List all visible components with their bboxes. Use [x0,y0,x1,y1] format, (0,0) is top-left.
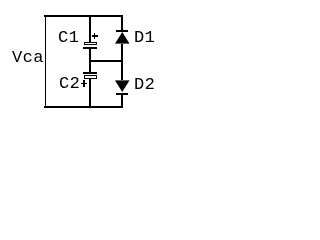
wire top rail [44,15,123,17]
capacitor C2 positive plate (outlined) [84,75,97,79]
capacitor C1 plus sign [92,35,98,37]
wire bottom rail [44,106,123,108]
diode D1 cathode bar [116,30,128,32]
label Vca [12,50,44,67]
wire diode branch upper segment [121,15,123,30]
label D2 [134,77,155,94]
capacitor C1 positive plate (outlined) [84,42,97,46]
wire diode branch middle segment [121,44,123,80]
wire capacitor branch lower segment [89,79,91,108]
wire capacitor branch middle segment [89,49,91,72]
label C1 [58,30,79,47]
wire diode branch lower segment [121,94,123,108]
diode D2 triangle (anode, pointing down) [115,80,130,92]
wire left vertical (Vca port side) [45,15,47,108]
wire midpoint junction horizontal [89,60,122,62]
capacitor C1 negative plate (solid) [83,47,97,49]
diode D2 cathode bar [116,93,128,95]
diode D1 triangle (anode, pointing up) [115,32,130,44]
wire capacitor branch upper segment [89,15,91,42]
capacitor C2 plus sign [81,83,87,85]
label C2 [59,76,80,93]
label D1 [134,30,155,47]
capacitor C2 negative plate (solid) [83,72,97,74]
